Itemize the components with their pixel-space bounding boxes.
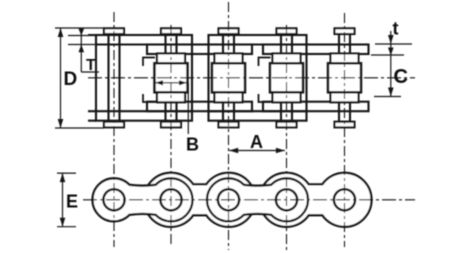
svg-text:C: C — [394, 66, 408, 88]
svg-text:D: D — [64, 69, 78, 90]
svg-text:E: E — [66, 192, 78, 212]
svg-text:A: A — [250, 132, 263, 152]
svg-text:B: B — [186, 135, 199, 155]
svg-text:t: t — [393, 19, 399, 39]
svg-text:T: T — [86, 57, 96, 74]
